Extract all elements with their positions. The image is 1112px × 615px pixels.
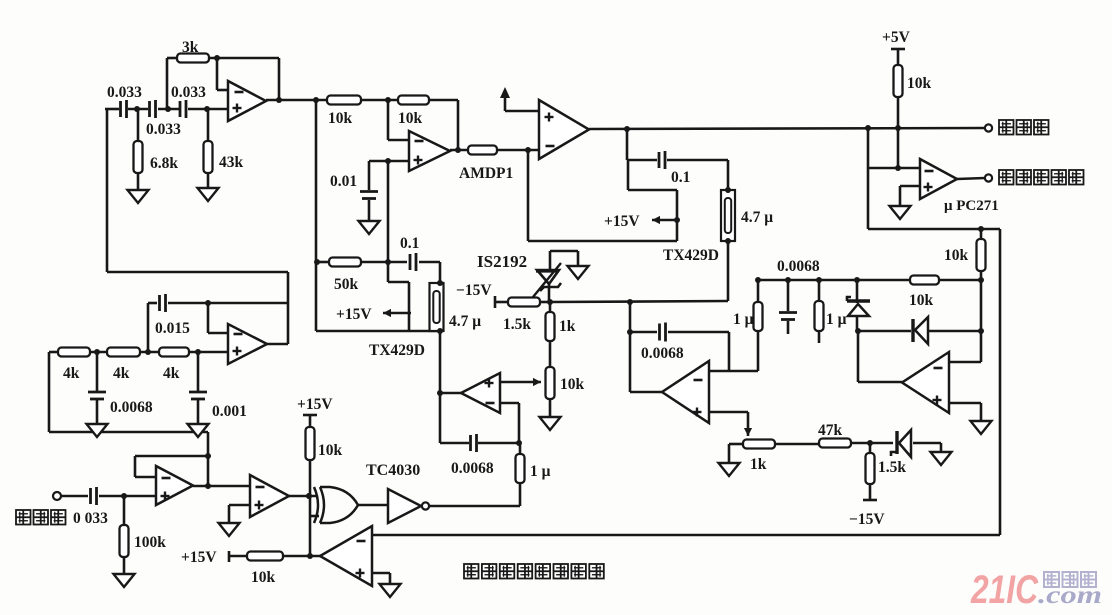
wire zener top loop bbox=[550, 251, 578, 269]
wire U5 - input loop bbox=[500, 403, 519, 443]
node cap2/3k junction bbox=[165, 106, 171, 112]
op-amp U11 (left) bbox=[662, 361, 709, 423]
resistor 10k (input of U2) bbox=[327, 96, 361, 105]
wire 0.0068 right line y=280 bbox=[758, 279, 981, 282]
resistor 6.8k bbox=[134, 141, 143, 173]
svg-text:+15V: +15V bbox=[336, 306, 372, 323]
svg-text:0.1: 0.1 bbox=[671, 169, 690, 186]
wire + column down to 50k line bbox=[387, 161, 390, 262]
svg-text:50k: 50k bbox=[334, 276, 359, 293]
node XOR col / U8 out bbox=[306, 493, 312, 499]
resistor 4k #2 bbox=[107, 348, 140, 357]
wire 50k line y=262 bbox=[318, 262, 440, 283]
wire +15V tick (XOR col) bbox=[303, 415, 317, 427]
wire 0.015 line y=303 bbox=[148, 302, 288, 305]
wire 1u column (U5) bbox=[519, 443, 522, 506]
capacitor 0.015 bbox=[160, 294, 166, 312]
wire XOR output bbox=[358, 504, 388, 507]
capacitor 1u (U5) bbox=[516, 454, 525, 483]
node U8 out / XOR bbox=[306, 493, 312, 499]
wire +15V to 10k bbox=[229, 555, 320, 558]
svg-text:1 μ: 1 μ bbox=[733, 311, 754, 328]
resistor 10k (+5V pullup) bbox=[894, 65, 903, 97]
wire 3k feedback top bbox=[167, 58, 279, 109]
wire XOR col down bbox=[309, 460, 312, 556]
node main/feedback col bbox=[865, 125, 871, 131]
node TX429D#2 top bbox=[725, 187, 731, 193]
wire 4k left loop bbox=[49, 352, 208, 432]
svg-text:21IC: 21IC bbox=[970, 568, 1039, 612]
svg-text:0.033: 0.033 bbox=[146, 121, 181, 138]
wire diode line y=331 bbox=[857, 330, 981, 333]
node cap3/43k junction bbox=[204, 106, 210, 112]
wire U2 noninverting line bbox=[369, 160, 409, 163]
svg-text:3k: 3k bbox=[182, 39, 199, 56]
wire -15V tick bbox=[494, 296, 497, 308]
svg-text:0 033: 0 033 bbox=[73, 510, 108, 527]
svg-text:0.0068: 0.0068 bbox=[110, 399, 153, 416]
op-amp U4 bbox=[228, 324, 267, 364]
svg-text:10k: 10k bbox=[251, 569, 276, 586]
wire U11 - input bbox=[709, 332, 758, 371]
label JieZhenZi (input resonator) bbox=[16, 510, 66, 525]
wire TX429D#1 column down bbox=[439, 331, 442, 443]
op-amp U3 (AMDP1) bbox=[539, 100, 589, 159]
node TX429D#1 bottom bbox=[437, 328, 443, 334]
wire 43k column bbox=[207, 109, 210, 188]
wire feedback line y=272 bbox=[107, 271, 288, 274]
svg-text:4k: 4k bbox=[63, 365, 80, 382]
wire +15V loop step bbox=[388, 262, 409, 331]
node 0.015 / U4 inv bbox=[205, 300, 211, 306]
node 4k2/0.015 bbox=[145, 349, 151, 355]
op-amp U9 uPC271 bbox=[920, 159, 957, 199]
wire U6 long - input line bbox=[372, 534, 1000, 537]
node input/100k bbox=[121, 493, 127, 499]
svg-text:+15V: +15V bbox=[604, 213, 640, 230]
svg-text:0.01: 0.01 bbox=[330, 173, 357, 190]
op-amp U7 bbox=[156, 466, 193, 505]
resistor 1.5k (to -15V) bbox=[866, 453, 875, 484]
node TX429D#2 bottom bbox=[725, 238, 731, 244]
wire U1 output line y=100 bbox=[266, 99, 458, 102]
resistor 100k bbox=[120, 525, 129, 557]
svg-text:0.015: 0.015 bbox=[155, 320, 190, 337]
arrow boost supply up bbox=[500, 87, 510, 98]
zener diode D2 bbox=[847, 280, 870, 331]
arrow U11 + wiper bbox=[744, 412, 752, 436]
wire U1 inverting input step bbox=[217, 58, 228, 90]
node TX429D#1 top bbox=[437, 280, 443, 286]
node 3k / inverting tap bbox=[214, 55, 220, 61]
svg-text:0.0068: 0.0068 bbox=[451, 460, 494, 477]
ground U10 + bbox=[971, 421, 992, 434]
svg-text:−15V: −15V bbox=[456, 282, 492, 299]
resistor 50k bbox=[329, 258, 361, 267]
svg-text:0.0068: 0.0068 bbox=[777, 258, 820, 275]
wire XOR bottom input bbox=[310, 515, 319, 518]
svg-text:4k: 4k bbox=[113, 365, 130, 382]
resistor 10k (feedback of U2) bbox=[398, 96, 429, 105]
label PinLvJiShuQi (freq counter) bbox=[999, 170, 1084, 185]
wire 0.015 tap down bbox=[147, 303, 150, 352]
ground diode D3 bbox=[931, 452, 952, 465]
node U7 out / chain bbox=[205, 483, 211, 489]
wire 0.0068 feedback line bbox=[440, 442, 519, 445]
capacitor 0.0068 (U11) bbox=[660, 323, 666, 342]
node U3 out / 0.1 branch bbox=[624, 126, 630, 132]
svg-text:1.5k: 1.5k bbox=[878, 459, 906, 476]
wire x=316 branch down bbox=[316, 100, 440, 331]
wire U7 output bbox=[193, 485, 250, 488]
node U5 fb / 1u bbox=[516, 440, 522, 446]
node U2 out/feedback bbox=[455, 147, 461, 153]
note capacitor units are microfarads bbox=[464, 564, 604, 579]
wire U2 output line bbox=[450, 149, 539, 152]
node capc top bbox=[785, 277, 791, 283]
wire main input line y=109 bbox=[105, 108, 228, 111]
wire 0.1#2 branch bbox=[627, 129, 728, 190]
svg-text:6.8k: 6.8k bbox=[150, 155, 178, 172]
svg-text:0.001: 0.001 bbox=[212, 403, 247, 420]
svg-text:10k: 10k bbox=[560, 376, 585, 393]
wire pullup down bbox=[897, 97, 900, 168]
node U2 + / 50k column bbox=[385, 158, 391, 164]
wire right edge down bbox=[999, 229, 1002, 535]
wire U4 output bbox=[267, 343, 288, 346]
svg-text:−15V: −15V bbox=[849, 511, 885, 528]
resistor 43k bbox=[204, 141, 213, 173]
wire U10 + input bbox=[949, 403, 981, 421]
svg-text:10k: 10k bbox=[907, 75, 932, 92]
svg-text:0.0068: 0.0068 bbox=[641, 345, 684, 362]
svg-text:μ PC271: μ PC271 bbox=[944, 198, 999, 214]
resistor 1k (divider) bbox=[546, 312, 555, 341]
svg-text:TX429D: TX429D bbox=[369, 342, 425, 359]
node right col 331 bbox=[978, 328, 984, 334]
node XOR col / U6 tip bbox=[307, 553, 313, 559]
capacitor 0.001 bbox=[189, 392, 207, 399]
node right col 280 bbox=[978, 277, 984, 283]
svg-text:1.5k: 1.5k bbox=[503, 316, 531, 333]
wire U3 output main line y=129 bbox=[589, 128, 985, 129]
wire -15V rail right bbox=[550, 301, 728, 302]
resistor 4k #3 bbox=[159, 348, 189, 357]
resistor 10k (right) bbox=[910, 276, 939, 285]
wire diode to ground bbox=[913, 443, 941, 452]
capacitor 0.1 (U3 block) bbox=[659, 151, 665, 169]
wire 0.001 cap column bbox=[197, 352, 200, 424]
capacitor 0.0068 (twin-T) bbox=[88, 392, 106, 399]
wire U2 inverting step bbox=[388, 100, 409, 140]
svg-text:IS2192: IS2192 bbox=[477, 252, 527, 271]
ground zener loop bbox=[568, 266, 589, 279]
arrow +15V feed (U3 block) bbox=[652, 216, 677, 224]
svg-text:+5V: +5V bbox=[882, 29, 911, 46]
reference TX429D (shunt ref #2) bbox=[721, 190, 735, 241]
capacitor 0.033 (first) bbox=[121, 100, 127, 118]
ground 10k pot bbox=[540, 417, 561, 430]
wire 1k to 47k bbox=[775, 443, 819, 446]
wire right col 10k bbox=[980, 229, 983, 239]
ground 0.001 bbox=[188, 424, 209, 437]
node - line/pullup bbox=[895, 165, 901, 171]
node fb/chain bbox=[205, 453, 211, 459]
svg-text:0.033: 0.033 bbox=[107, 84, 142, 101]
svg-text:TC4030: TC4030 bbox=[366, 462, 420, 479]
arrow U5 + wiper tap bbox=[500, 378, 541, 386]
svg-text:10k: 10k bbox=[398, 110, 423, 127]
wire -15V tick 2 bbox=[863, 499, 877, 502]
svg-text:4.7 μ: 4.7 μ bbox=[449, 313, 481, 330]
terminal frequency counter bbox=[985, 174, 992, 181]
op-amp U5 (left) bbox=[461, 373, 500, 413]
wire 0.0068 fb line (U11) bbox=[630, 331, 729, 334]
capacitor (ceramic, unlabeled) bbox=[779, 313, 797, 320]
reference TX429D (shunt ref #1) bbox=[430, 283, 444, 331]
svg-text:+15V: +15V bbox=[297, 396, 333, 413]
node 50k left bbox=[314, 259, 320, 265]
op-amp U1 bbox=[228, 81, 266, 121]
capacitor 1u #2 bbox=[815, 301, 824, 331]
wire right fb vertical x=288 bbox=[287, 272, 290, 344]
op-amp U2 bbox=[409, 131, 450, 171]
node 50k/U2+ junction bbox=[385, 259, 391, 265]
ground U8 + bbox=[219, 523, 240, 536]
capacitor 0.1 (ref block) bbox=[410, 253, 416, 271]
node 1u2 top bbox=[816, 277, 822, 283]
resistor 1.5k (rail) bbox=[508, 298, 540, 307]
arrow +15V feed (ref block) bbox=[383, 309, 411, 317]
ground 43k bbox=[198, 188, 219, 201]
resistor 10k (right col) bbox=[977, 239, 986, 271]
svg-text:47k: 47k bbox=[818, 422, 843, 439]
node +15V tap U3 block bbox=[674, 217, 680, 223]
wire 0.01 column bbox=[368, 161, 371, 221]
wire +15V tick (U6) bbox=[228, 551, 231, 562]
wire +5V tick bbox=[891, 49, 905, 65]
wire -15V to 1.5k bbox=[495, 301, 550, 304]
resistor AMDP1 series bbox=[468, 146, 497, 155]
wire U11 output bbox=[630, 302, 662, 392]
wire U8 output bbox=[289, 495, 316, 498]
svg-text:TX429D: TX429D bbox=[663, 247, 719, 264]
wire 1k pot line bbox=[729, 444, 743, 463]
xor gate TC4030 bbox=[314, 487, 358, 523]
wire left branch down bbox=[106, 109, 109, 272]
wire 1u#2 column bbox=[818, 280, 821, 343]
wire U10 - input bbox=[949, 331, 981, 362]
zener diode IS2192 bbox=[533, 263, 561, 302]
ground 1k pot left bbox=[719, 463, 740, 476]
node 47k/1.5k bbox=[867, 440, 873, 446]
ground 0.01 bbox=[359, 221, 380, 234]
node loop/10k col bbox=[978, 226, 984, 232]
diode D3 (clamp) bbox=[891, 430, 911, 457]
ground U9 + bbox=[890, 206, 911, 219]
wire U11 + input bbox=[709, 411, 748, 414]
node U5 output junction bbox=[437, 390, 443, 396]
wire U5 output stub bbox=[440, 392, 461, 395]
wire U2 feedback down bbox=[457, 100, 460, 150]
wire U1 feedback right bbox=[278, 58, 281, 100]
svg-text:100k: 100k bbox=[134, 534, 166, 551]
svg-text:43k: 43k bbox=[219, 154, 244, 171]
ground 100k bbox=[114, 574, 135, 587]
label DaoZhenZi (to resonator) bbox=[999, 120, 1049, 135]
node main/50k branch bbox=[313, 97, 319, 103]
wire 100k column bbox=[123, 496, 126, 574]
svg-text:1 μ: 1 μ bbox=[826, 311, 847, 328]
logo dianziwang bbox=[1044, 572, 1096, 587]
wire 6.8k column bbox=[137, 109, 140, 190]
ground 0.0068 twin-T bbox=[87, 424, 108, 437]
diode D1 (feedback) bbox=[913, 317, 928, 344]
resistor 4k #1 bbox=[58, 348, 90, 357]
capacitor 0.0068 (U5 feedback) bbox=[471, 434, 477, 452]
op-amp U8 bbox=[250, 475, 289, 517]
svg-text:+15V: +15V bbox=[181, 549, 217, 566]
op-amp U6 (left) bbox=[320, 526, 372, 586]
wire 10k pot to ground bbox=[549, 399, 552, 417]
potentiometer 10k (divider) bbox=[546, 367, 555, 399]
svg-text:10k: 10k bbox=[944, 247, 969, 264]
terminal input (to resonator) bbox=[53, 492, 61, 500]
node 4k3/0.001 bbox=[195, 349, 201, 355]
wire U8 + to ground bbox=[229, 505, 250, 523]
wire 0.0068 cap column bbox=[96, 352, 99, 424]
node U11 fb/0.0068 bbox=[627, 329, 633, 335]
svg-text:1 μ: 1 μ bbox=[530, 463, 551, 480]
resistor 3k bbox=[177, 54, 209, 63]
capacitor 0.01 bbox=[360, 192, 378, 199]
wire inverter output to 1u bbox=[429, 505, 520, 508]
wire U3 + input to arrow bbox=[505, 97, 539, 111]
wire ceramic cap column bbox=[787, 280, 790, 334]
svg-text:10k: 10k bbox=[318, 442, 343, 459]
wire 1.5k column bbox=[869, 443, 872, 500]
wire U6 + to ground bbox=[372, 573, 390, 584]
wire U4 inv step bbox=[208, 303, 228, 333]
node cap1/6.8k junction bbox=[134, 106, 140, 112]
ground 6.8k bbox=[128, 190, 149, 203]
wire 4k line bbox=[49, 351, 228, 354]
op-amp U10 (left) bbox=[902, 352, 949, 413]
wire 1u#1 column bbox=[757, 280, 760, 371]
wire chain vertical x=208 bbox=[207, 432, 210, 486]
node zener2/U10 out bbox=[855, 328, 861, 334]
capacitor 0.033 (third) bbox=[180, 100, 186, 118]
capacitor 0.033 input bbox=[91, 487, 97, 505]
wire U7 feedback bbox=[135, 456, 208, 477]
capacitor 0.033 (second) bbox=[150, 100, 156, 118]
wire feedback loop top y=229 bbox=[868, 228, 1000, 231]
resistor 10k (XOR col) bbox=[306, 427, 315, 460]
node main/pullup bbox=[895, 125, 901, 131]
capacitor 1u #1 bbox=[754, 302, 763, 331]
wire right col down bbox=[980, 271, 983, 331]
resistor 10k (U6 feed) bbox=[247, 552, 283, 561]
node rail / U11 output bbox=[627, 299, 633, 305]
terminal to resonator bbox=[985, 124, 992, 131]
svg-text:1k: 1k bbox=[750, 456, 767, 473]
svg-text:4.7 μ: 4.7 μ bbox=[741, 209, 773, 226]
resistor 47k bbox=[819, 439, 851, 448]
wire U9 + to ground bbox=[900, 186, 920, 206]
node U3 inv / loop bbox=[525, 147, 531, 153]
svg-text:10k: 10k bbox=[909, 292, 934, 309]
wire 47k to diode bbox=[851, 442, 893, 445]
node 4k1/0.0068 bbox=[94, 349, 100, 355]
node zener2 top bbox=[854, 277, 860, 283]
wire input line bbox=[61, 495, 156, 498]
potentiometer 1k bbox=[743, 440, 775, 449]
svg-text:4k: 4k bbox=[163, 365, 180, 382]
wire TX429D#2 down to -15V rail bbox=[727, 241, 730, 301]
node 1u1 top bbox=[755, 277, 761, 283]
node zener/1k/rail bbox=[547, 299, 553, 305]
svg-text:0.033: 0.033 bbox=[171, 84, 206, 101]
node main/U2 inverting bbox=[385, 97, 391, 103]
wire U10 output bbox=[858, 331, 902, 382]
wire comparator - line bbox=[868, 128, 920, 229]
svg-text:AMDP1: AMDP1 bbox=[459, 165, 513, 182]
wire U3 feedback loop bbox=[528, 150, 677, 241]
node U1 output/feedback bbox=[276, 97, 282, 103]
wire 1k column bbox=[549, 302, 552, 367]
svg-text:1k: 1k bbox=[559, 318, 576, 335]
inverter TC4030 buffer bbox=[388, 489, 429, 523]
svg-text:10k: 10k bbox=[328, 110, 353, 127]
ground U6 + bbox=[380, 584, 401, 597]
wire U9 output bbox=[957, 178, 985, 179]
svg-text:0.1: 0.1 bbox=[400, 235, 419, 252]
